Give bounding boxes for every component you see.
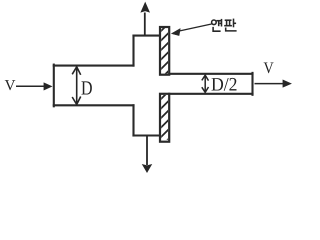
svg-text:V: V bbox=[264, 60, 275, 77]
svg-text:D: D bbox=[81, 77, 93, 99]
svg-text:V: V bbox=[5, 78, 16, 94]
svg-text:D/2: D/2 bbox=[211, 75, 238, 96]
